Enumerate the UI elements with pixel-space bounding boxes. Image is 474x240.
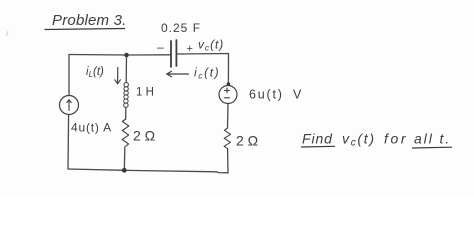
svg-text:–: – [157,40,164,54]
svg-text:0.25 F: 0.25 F [161,21,201,35]
svg-text:iL(t): iL(t) [86,66,104,79]
svg-text:1 H: 1 H [136,87,154,99]
svg-text:for: for [384,131,408,147]
svg-text:all t.: all t. [414,131,451,147]
svg-text:Find: Find [302,131,333,147]
svg-text:2 Ω: 2 Ω [133,128,155,144]
svg-text:Problem 3.: Problem 3. [52,12,127,29]
svg-text:+: + [187,43,193,55]
svg-text:2 Ω: 2 Ω [236,133,258,149]
svg-text:vc(t): vc(t) [342,131,376,149]
svg-text:6u(t): 6u(t) [249,88,284,102]
svg-text:ic(t): ic(t) [194,66,220,81]
svg-text:vc(t): vc(t) [198,38,224,53]
svg-text:4u(t) A: 4u(t) A [71,121,112,135]
svg-text:V: V [293,88,302,102]
